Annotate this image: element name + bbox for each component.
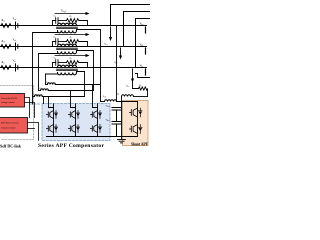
svg-text:Vsc: Vsc	[13, 60, 16, 64]
svg-text:VLc: VLc	[140, 65, 144, 69]
wire controller1 out2	[25, 103, 35, 118]
svg-text:Vsa: Vsa	[13, 18, 16, 22]
leg 1 series APF	[53, 104, 55, 137]
resistor Rr phase B	[67, 40, 88, 47]
resistor Rr phase A	[67, 19, 88, 26]
svg-text:Rr: Rr	[69, 36, 72, 39]
svg-text:VLb: VLb	[140, 44, 144, 48]
transformer T-B primary	[58, 44, 77, 46]
svg-text:Sinusoidal PWM: Sinusoidal PWM	[1, 98, 17, 100]
controller box 1	[0, 94, 25, 108]
IGBT S4	[47, 125, 58, 133]
wire phase A line	[0, 25, 147, 27]
transformer T-C primary	[58, 65, 77, 67]
svg-text:LL: LL	[116, 93, 119, 96]
resistor Rsb	[1, 45, 11, 49]
svg-text:iLa: iLa	[104, 43, 107, 47]
svg-text:Rr: Rr	[69, 15, 72, 18]
Vinj arrow phase B	[55, 33, 90, 36]
marker Vdc	[43, 97, 45, 104]
svg-text:Vsb: Vsb	[13, 39, 16, 43]
svg-text:Vinj,b: Vinj,b	[61, 31, 66, 35]
labels	[1, 10, 144, 122]
IGBT Sh2	[130, 125, 143, 134]
load branch wire	[133, 82, 139, 89]
wire T-B secondary left	[39, 52, 58, 91]
wire series APF input b	[71, 91, 76, 108]
svg-text:Vdc2: Vdc2	[106, 119, 110, 122]
transformer T-A secondary	[58, 31, 77, 33]
wire T-C secondary right	[77, 72, 85, 97]
arrow iLb	[119, 48, 122, 60]
IGBT S2	[69, 111, 80, 119]
svg-text:Cr: Cr	[54, 36, 57, 39]
inductor Lse-b row	[39, 89, 94, 91]
riser phase c to load	[136, 19, 151, 68]
svg-text:Rr: Rr	[69, 57, 72, 60]
wire T-A secondary right	[77, 30, 101, 102]
svg-text:Shunt APF: Shunt APF	[131, 143, 149, 147]
svg-text:voltage control: voltage control	[1, 101, 15, 104]
capacitor Cr phase B	[53, 39, 67, 47]
transformer T-C secondary	[58, 73, 77, 75]
svg-text:Vdc1: Vdc1	[106, 105, 110, 108]
wire phase B line	[0, 46, 147, 48]
riser phase a to load	[111, 5, 151, 26]
arrow iLc	[131, 69, 134, 83]
svg-text:Lse: Lse	[45, 81, 49, 84]
transformer T-B secondary	[58, 52, 77, 54]
leg shunt APF	[137, 102, 139, 137]
svg-text:SRF-Based current: SRF-Based current	[1, 123, 19, 125]
wire T-B secondary right	[77, 51, 94, 91]
transformer T-C core	[57, 69, 78, 70]
source Vsc	[16, 64, 18, 71]
voltage marker VLb	[145, 48, 147, 54]
svg-text:Vdc: Vdc	[37, 95, 40, 98]
svg-text:Lsh: Lsh	[102, 95, 106, 98]
arrow iLa	[109, 27, 112, 41]
svg-text:Cr: Cr	[54, 57, 57, 60]
resistor Rsa	[1, 24, 11, 28]
wire controller1 out	[25, 98, 30, 118]
voltage marker VLc	[145, 69, 147, 75]
leg 2 series APF	[75, 104, 77, 137]
svg-text:Cr: Cr	[54, 15, 57, 18]
svg-text:iLb: iLb	[114, 61, 117, 65]
shunt APF box	[123, 101, 149, 146]
ground	[118, 137, 126, 143]
resistor Rr phase C	[67, 61, 88, 68]
resistor Rsc	[1, 66, 11, 70]
wire T-C secondary left	[46, 73, 58, 85]
inductor Lsh	[101, 100, 138, 102]
transformer T-A primary	[58, 23, 77, 25]
wire controller2 out2	[28, 128, 35, 130]
IGBT S1	[47, 111, 58, 119]
svg-text:Rsa: Rsa	[1, 19, 5, 23]
wire controller2 out	[28, 123, 39, 141]
dc rail bottom	[47, 136, 138, 138]
source Vsa	[16, 22, 18, 29]
Vinj arrow phase C	[55, 54, 90, 57]
transformer T-A core	[57, 27, 78, 28]
svg-text:Self DC-link: Self DC-link	[0, 144, 22, 149]
svg-text:Rsc: Rsc	[1, 61, 5, 64]
inductor Lse-c row	[33, 95, 85, 97]
svg-text:Vinj,c: Vinj,c	[61, 52, 66, 56]
capacitor Cdc1	[112, 108, 121, 122]
svg-text:control of shunt: control of shunt	[1, 127, 16, 130]
capacitor Cdc2	[112, 122, 121, 137]
series APF box	[30, 104, 110, 141]
wire T-A secondary left	[33, 31, 58, 105]
svg-text:iLc: iLc	[126, 85, 129, 89]
wire load neutral top	[136, 74, 151, 78]
leg 3 series APF	[97, 104, 99, 137]
voltage marker VLa	[145, 27, 147, 33]
source Vsb	[16, 43, 18, 50]
svg-text:VLa: VLa	[140, 23, 144, 27]
capacitor Cr phase A	[53, 18, 67, 26]
wire load neutral	[121, 97, 123, 137]
wire series APF input a	[93, 85, 98, 108]
svg-text:Vinj,a: Vinj,a	[61, 10, 66, 14]
shunt tap wire	[116, 26, 118, 102]
IGBT S3	[91, 111, 102, 119]
svg-text:Series APF Compensator: Series APF Compensator	[38, 143, 105, 149]
capacitor Cr phase C	[53, 60, 67, 68]
svg-text:RL: RL	[138, 84, 142, 87]
dashed enclosure controller block	[1, 86, 34, 140]
IGBT S6	[91, 125, 102, 133]
wire series APF input c	[49, 97, 54, 108]
inductor Lse-a row	[46, 83, 101, 85]
resistor RL	[139, 87, 148, 97]
wire phase C line	[0, 67, 147, 69]
svg-text:Lse: Lse	[33, 93, 37, 96]
IGBT Sh1	[130, 108, 143, 117]
Vinj arrow phase A	[55, 12, 90, 15]
controller box 2	[0, 118, 28, 134]
svg-text:Lse: Lse	[39, 87, 43, 90]
svg-text:Rsb: Rsb	[1, 40, 5, 44]
IGBT S5	[69, 125, 80, 133]
transformer T-B core	[57, 48, 78, 49]
inductor LL	[122, 95, 148, 97]
riser phase b to load	[124, 12, 151, 47]
